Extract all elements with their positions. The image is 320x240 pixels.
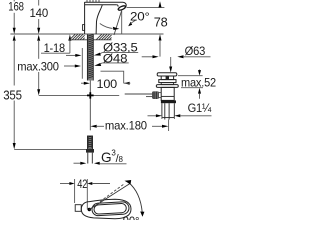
diam48 underline leader [94, 63, 129, 66]
faucet body side view [83, 0, 127, 34]
100 L extension [101, 71, 124, 83]
svg-text:20°: 20° [130, 9, 150, 23]
left tab [83, 25, 85, 31]
junction cross at 355 line [87, 92, 94, 98]
flange bottom extension [181, 87, 203, 89]
swivel arc [128, 182, 142, 213]
water stream line [114, 10, 122, 35]
pop-up waste drain assembly [156, 73, 178, 101]
tail pipe [162, 103, 174, 119]
svg-text:90°: 90° [123, 214, 140, 220]
upper left arrow pair to shank extension [66, 48, 82, 79]
100 left arrow [81, 82, 90, 85]
vertical ref line from aerator to deck [121, 11, 123, 34]
braided hose [88, 136, 93, 149]
svg-text:max.52: max.52 [181, 75, 216, 89]
horizontal line y150 to hose [14, 149, 86, 151]
body outline top view [81, 199, 131, 219]
side inlet pipe [125, 93, 162, 98]
dim line 168 vertical [13, 0, 16, 86]
max52 bottom arrow [198, 88, 201, 99]
diam63 leader down to drain [169, 57, 172, 73]
knurled nut [152, 91, 159, 99]
hose line below shank [89, 81, 91, 131]
svg-text:140: 140 [30, 6, 49, 20]
spout underside tip [117, 5, 118, 7]
horizontal 355-level line y96.4 [39, 94, 120, 96]
aerator [118, 5, 127, 11]
G3/8 arrows [74, 162, 127, 165]
diam33,5 underline leader [94, 52, 138, 55]
355 dimension line resume below text and arrow at y149 [13, 101, 16, 150]
max52 top arrow [198, 70, 201, 76]
dark band at body bottom [161, 100, 176, 103]
G3/8 thread tube [88, 153, 93, 164]
svg-text:max.300: max.300 [17, 60, 59, 74]
drain top level extension [178, 75, 203, 77]
hose nut [86, 149, 94, 153]
body left edge [84, 2, 86, 34]
dim line 140 vertical [37, 0, 40, 95]
shank threaded below deck [87, 34, 93, 80]
svg-text:78: 78 [154, 14, 168, 29]
flange [156, 85, 178, 88]
notch [75, 205, 81, 212]
spout outlet level extension line [127, 7, 165, 9]
stem [161, 76, 173, 80]
handle capsule outer [92, 202, 130, 216]
svg-text:168: 168 [8, 0, 24, 14]
svg-text:42: 42 [77, 177, 87, 191]
spout tip curve [123, 2, 126, 7]
diam63 dim line with inward arrows [142, 55, 211, 58]
deck hatch left [70, 34, 85, 39]
top view outline body [75, 199, 131, 219]
handle bar line [85, 1, 123, 3]
mid ring [159, 80, 176, 83]
78 top arrow [159, 1, 162, 7]
20deg arc with arrowheads [100, 20, 136, 30]
body front curve [96, 5, 102, 34]
solid swivel ray [89, 184, 130, 210]
max180 right arrow [152, 125, 169, 128]
plug disc [157, 73, 177, 76]
100 right arrow + tail [124, 82, 131, 85]
78 bottom arrow [159, 34, 162, 56]
G1 1/4 arrows inward [148, 114, 212, 119]
svg-text:G1¼: G1¼ [188, 101, 212, 115]
deck bottom line [68, 39, 111, 41]
svg-text:max.180: max.180 [105, 119, 147, 133]
max300 arrow [64, 65, 81, 68]
deck hatch right [96, 34, 111, 39]
dashed swivel ray [89, 184, 124, 210]
handle ticks [86, 0, 88, 2]
body step line [161, 95, 174, 97]
svg-text:100: 100 [97, 77, 118, 91]
max180 left arrow [90, 125, 104, 128]
arc top arrowhead [125, 180, 132, 185]
svg-text:355: 355 [3, 87, 22, 102]
arc bottom arrowhead [140, 212, 144, 217]
body top / spout underside [85, 4, 117, 6]
stem dark slot [166, 76, 169, 80]
drain axis stub [168, 120, 170, 132]
deck top line [10, 33, 163, 35]
neck [161, 83, 173, 85]
svg-text:Ø63: Ø63 [185, 44, 206, 58]
pivot dot [88, 208, 91, 211]
body [161, 87, 174, 100]
handle capsule inner [94, 203, 127, 214]
